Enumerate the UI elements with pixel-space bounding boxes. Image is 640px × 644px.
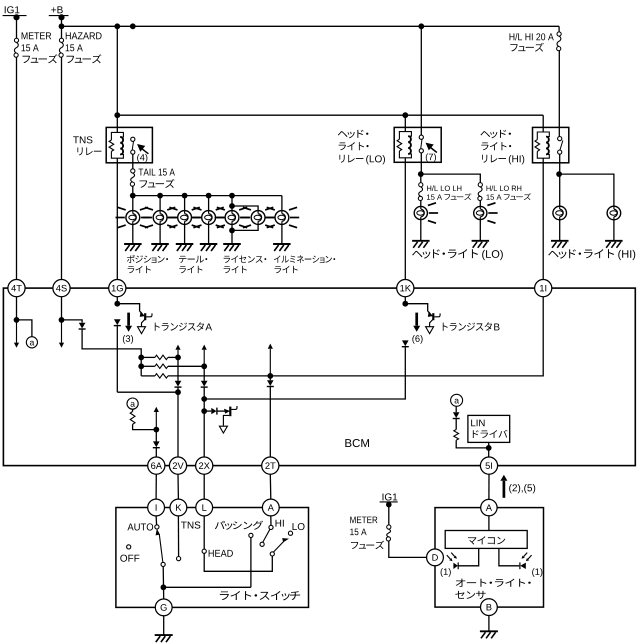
node headlight HI split — [556, 171, 562, 177]
relay TNS box — [106, 127, 152, 162]
light switch box — [116, 508, 309, 608]
wire relay coil bus (bus2) — [117, 114, 543, 116]
wire branch to lamp 6 top — [232, 206, 258, 211]
relay headlight HI contact — [558, 137, 562, 141]
wire +B top bus — [62, 25, 560, 27]
lamp headlight HI RH — [607, 206, 621, 220]
wire micom to photodiode left — [459, 548, 479, 565]
label license light — [224, 255, 267, 262]
wire 2X vertical — [203, 366, 205, 381]
lamp license light 3 — [251, 211, 265, 225]
ground headlight LO LH — [412, 241, 430, 248]
wire HAZARD fuse to pin 4S — [61, 57, 63, 279]
wire I to AUTO contact — [155, 516, 158, 525]
lamp tail light 1 — [153, 211, 167, 225]
arrow LIN signal — [503, 481, 506, 498]
node +B bus junction — [59, 23, 65, 29]
node R2 right — [201, 363, 207, 369]
pin I — [148, 499, 165, 516]
arrow 4S signal — [61, 320, 63, 343]
label passing — [215, 521, 263, 530]
node 2X transistor branch — [201, 408, 207, 414]
wire diode to resistor network — [82, 329, 141, 376]
label transistor B — [443, 322, 492, 331]
wire diode to pin 2X — [203, 387, 205, 457]
wire HEAD to dimmer — [204, 553, 272, 571]
label HEAD — [209, 550, 233, 557]
pin K — [170, 499, 187, 516]
node license light branch top — [229, 203, 235, 209]
lamp illumination light — [275, 211, 289, 225]
photodiode left — [457, 562, 459, 569]
wire to HI RH lamp — [559, 174, 614, 206]
wire a to resistor — [132, 409, 134, 411]
node switch common — [161, 584, 167, 590]
LIN driver box — [468, 415, 510, 442]
label (2),(5) — [509, 484, 535, 493]
node headlight LO split — [418, 171, 424, 177]
lamp position light — [126, 211, 140, 225]
diode 2X transistor — [204, 410, 211, 412]
wires headlight HI to grounds — [559, 220, 561, 241]
wire HI relay coil to pin 1I — [542, 158, 544, 279]
label (7) — [426, 153, 436, 162]
fuse TAIL 15A — [131, 169, 135, 173]
node R3 - 2T junction — [267, 373, 273, 379]
wire IG1 to METER fuse — [16, 17, 18, 38]
terminal IG1 — [5, 6, 20, 13]
wire RH fuse to lamp — [479, 201, 481, 207]
switch lever (dimmer HI) — [263, 529, 270, 542]
node 5I junction — [486, 445, 492, 451]
wire lamp feeds — [132, 196, 134, 211]
wire H/L HI fuse to HI relay contact — [558, 51, 560, 137]
switch lever (dimmer LO) — [273, 542, 283, 553]
transistor B base wire — [405, 304, 427, 312]
node headlight LO relay coil feed — [402, 112, 408, 118]
wire 2V to switch K — [177, 474, 179, 499]
contact AUTO — [155, 525, 159, 529]
resistor 6A pullup — [130, 412, 135, 425]
transistor A base wire — [117, 304, 139, 312]
node lamp feed 4 — [206, 193, 212, 199]
lamp license light 1 — [202, 211, 216, 225]
wire bus to H/L HI fuse — [558, 26, 560, 32]
wire LO relay contact down — [420, 153, 422, 174]
resistor R3 — [155, 374, 168, 378]
label illumination light — [274, 255, 335, 263]
pin 5I — [480, 457, 497, 474]
pin G — [155, 599, 172, 616]
node a (LIN) — [451, 394, 463, 406]
relay headlight LO box — [394, 127, 441, 162]
wires headlight LO to grounds — [420, 220, 422, 241]
wire diode to pin 2T — [269, 387, 271, 458]
wire 1K to node 2X — [404, 341, 406, 344]
transistor B — [432, 313, 434, 320]
label (1) left — [441, 568, 451, 577]
contact LO — [288, 531, 292, 535]
node 1G-2V junction — [175, 389, 181, 395]
BCM box — [3, 288, 635, 466]
wire micom to photodiode right — [499, 548, 519, 565]
contact OFF — [127, 545, 131, 549]
diode LIN — [453, 412, 460, 418]
node 4S branch — [59, 317, 65, 323]
ground headlight LO RH — [472, 241, 490, 248]
node 4T branch — [14, 317, 20, 323]
node resistor row2 left — [138, 363, 144, 369]
contact dimmer HI end — [260, 542, 264, 546]
pin A (sensor) — [481, 499, 497, 515]
wire 4S branch right — [62, 320, 83, 323]
arrow 2V signal — [177, 350, 179, 358]
node TNS coil feed — [114, 23, 120, 29]
ground headlight HI RH — [605, 241, 623, 248]
node R1 right — [175, 355, 181, 361]
label (3) — [123, 335, 133, 344]
wire 1G to node 2V — [116, 326, 118, 393]
wire TNS contact down to TAIL fuse — [132, 154, 134, 169]
lamp tail light 2 — [178, 211, 192, 225]
wire LO relay coil feed down — [404, 115, 406, 131]
ground sensor — [480, 631, 498, 638]
wire L down — [203, 516, 205, 549]
terminal IG1 (sensor) — [383, 493, 398, 500]
relay headlight HI coil — [537, 132, 549, 158]
photodiode right — [519, 562, 521, 569]
contact dimmer pivot — [270, 552, 274, 556]
auto light sensor box — [435, 508, 544, 607]
node TNS contact feed — [130, 23, 136, 29]
relay headlight HI box — [533, 127, 569, 162]
arrow transistor A current — [127, 313, 130, 326]
label BCM — [345, 439, 369, 447]
lamp headlight LO RH — [474, 206, 487, 219]
label headlight HI — [548, 249, 614, 258]
pin B (sensor) — [481, 599, 498, 616]
wire resistor to 5I node — [456, 440, 489, 448]
label tail light — [179, 256, 207, 263]
node license light branch bottom — [229, 228, 235, 234]
node 6A junction — [153, 427, 159, 433]
wire HI relay contact down — [559, 154, 561, 174]
arrow 2X signal — [203, 350, 205, 367]
label AUTO — [127, 523, 153, 530]
terminal +B — [51, 6, 62, 13]
wire passing down — [250, 538, 252, 588]
pin 2V — [169, 457, 186, 474]
wire 2T to switch A — [269, 474, 272, 499]
label (1) right — [532, 568, 542, 577]
node TNS coil / bus2 junction — [114, 112, 120, 118]
pin 1K — [397, 280, 414, 297]
lamp headlight LO LH — [414, 206, 427, 219]
label light switch — [220, 591, 300, 600]
contact passing — [249, 533, 253, 537]
microcomputer box — [445, 531, 527, 549]
node lamp feed 2 — [157, 193, 163, 199]
fuse H/L LO LH 15A — [419, 183, 423, 187]
wire K down — [177, 516, 179, 557]
label LO — [293, 523, 305, 530]
arrow transistor B current — [415, 313, 418, 326]
arrow 4T signal — [16, 320, 18, 343]
wire to HI LH lamp — [559, 174, 561, 206]
diode 1K — [402, 340, 409, 346]
diode 6A — [153, 441, 160, 447]
label position light — [127, 255, 168, 263]
pin A — [262, 499, 279, 516]
fuse H/L LO RH 15A — [478, 183, 482, 187]
wire branch to lamp 6 bottom — [232, 225, 258, 231]
relay TNS coil — [111, 132, 123, 158]
pin 1I — [535, 280, 552, 297]
wire TNS coil feed down — [116, 26, 118, 132]
wire diode to resistor — [455, 419, 457, 430]
diode 4S branch — [79, 323, 86, 329]
wire resistor to 6A node — [133, 424, 157, 429]
label TNS relay — [73, 136, 92, 143]
label (4) — [137, 154, 147, 163]
label auto light sensor — [456, 579, 531, 587]
wire R3 to pin 1I — [168, 297, 543, 376]
pin 1G — [109, 280, 126, 297]
label HI — [276, 520, 284, 527]
diode 2T — [267, 380, 274, 386]
pin 2X — [196, 457, 213, 474]
fuse METER 15A (sensor) — [387, 525, 391, 529]
ground lamp at x=208 — [200, 244, 218, 251]
contact HEAD — [202, 549, 206, 553]
wire diode to pin 2V — [177, 387, 179, 457]
contact lever pivot — [161, 562, 165, 566]
resistor R1 — [141, 356, 155, 358]
wire METER fuse to pin 4T — [16, 57, 18, 279]
wire LIN box to 5I — [488, 442, 490, 457]
wires lamps to ground — [132, 225, 134, 245]
wire to RH fuse — [421, 174, 481, 183]
pin L — [196, 499, 213, 516]
transistor C (passing) — [229, 407, 231, 417]
transistor C base wire — [217, 410, 227, 412]
pin D (sensor) — [427, 549, 444, 566]
relay TNS actuate arrow — [138, 145, 148, 154]
relay headlight LO coil — [399, 132, 411, 158]
wire bus2 to HI relay coil — [542, 115, 544, 132]
ground lamp at x=132 — [124, 244, 142, 251]
wire 2V vertical — [177, 357, 179, 380]
ground headlight HI LH — [551, 241, 569, 248]
label transistor A — [155, 322, 204, 331]
switch lever (main) — [159, 534, 163, 562]
node 1G transistor A branch — [114, 301, 120, 307]
wire TAIL fuse to lamp bus — [132, 186, 134, 195]
wire B to ground — [488, 616, 490, 632]
diode 2X — [201, 381, 208, 387]
lamp headlight HI LH — [553, 206, 567, 220]
wire LO relay contact feed down — [420, 26, 422, 137]
node 1K-2X junction — [201, 396, 207, 402]
diode 1G — [114, 319, 121, 325]
relay TNS contact — [131, 137, 135, 141]
arrow 6A signal — [155, 412, 157, 430]
ground lamp at x=160 — [151, 244, 169, 251]
label TNS — [181, 522, 200, 529]
label headlight LO — [412, 249, 478, 258]
wire +B down — [61, 17, 63, 38]
resistor R2 — [141, 365, 155, 367]
wire a to diode — [455, 406, 457, 412]
pin 2T — [262, 457, 279, 474]
wire 2T vertical — [269, 376, 271, 380]
wire fuse to pin D — [389, 541, 427, 557]
wire 4T down — [16, 297, 18, 320]
wire G to ground — [163, 616, 165, 635]
fuse H/L HI 20A — [557, 32, 561, 36]
fuse HAZARD 15A — [59, 38, 63, 42]
wire 1G down — [116, 297, 118, 304]
relay LO actuate arrow — [427, 144, 437, 153]
arrow 2T signal — [269, 349, 271, 376]
diode 2V — [175, 381, 182, 387]
node lamp feed 5 — [229, 193, 235, 199]
wire common to passing contact — [163, 586, 251, 588]
wire pivot to G — [162, 567, 165, 600]
node 1K transistor B branch — [402, 301, 408, 307]
wire 6A node to diode — [155, 430, 157, 442]
wire A to HI contact — [270, 516, 272, 525]
label headlight HI relay — [480, 130, 511, 138]
contact TNS — [177, 557, 181, 561]
label headlight LO relay — [338, 130, 369, 138]
pin 6A — [148, 457, 165, 474]
node a (6A) — [127, 398, 138, 409]
wire 1K down — [404, 297, 406, 304]
ground light switch — [155, 635, 173, 642]
wire LO relay coil to pin 1K — [404, 158, 406, 280]
relay headlight LO contact — [419, 135, 423, 139]
wire LH fuse to lamp — [420, 201, 422, 207]
node lamp feed 1 — [130, 193, 136, 199]
wire TNS coil to TAIL fuse — [116, 158, 118, 279]
ground lamp at x=232 — [223, 244, 241, 251]
wire IG1 to METER fuse (sensor) — [388, 505, 390, 525]
wire diode to pin 6A — [155, 448, 157, 457]
lamp license light 2 — [225, 211, 239, 225]
wire A to microcomputer — [488, 516, 490, 531]
fuse METER 15A — [14, 38, 18, 42]
wire 2X to switch L — [203, 474, 205, 499]
pin 4T — [8, 280, 25, 297]
ground lamp at x=184 — [176, 244, 194, 251]
label METER 15A fuse (sensor) — [350, 517, 377, 524]
ground lamp at x=281 — [273, 244, 291, 251]
wire to LH fuse — [420, 174, 422, 183]
wire 4S down — [61, 297, 63, 320]
label microcomputer — [468, 536, 505, 544]
wire lamp bus — [133, 195, 282, 197]
transistor A — [144, 313, 146, 320]
node headlight LO relay contact feed — [418, 23, 424, 29]
node resistor row1 left — [138, 355, 144, 361]
label OFF — [120, 555, 139, 562]
resistor LIN — [454, 430, 459, 441]
pin 4S — [53, 280, 70, 297]
contact HI — [269, 525, 273, 529]
wire 5I to sensor A — [488, 474, 490, 499]
node lamp feed 3 — [182, 193, 188, 199]
wire 6A to switch I — [155, 474, 157, 499]
wire 4T to ref a — [17, 320, 32, 337]
node a (4T) — [26, 337, 37, 348]
label (6) — [412, 335, 422, 344]
